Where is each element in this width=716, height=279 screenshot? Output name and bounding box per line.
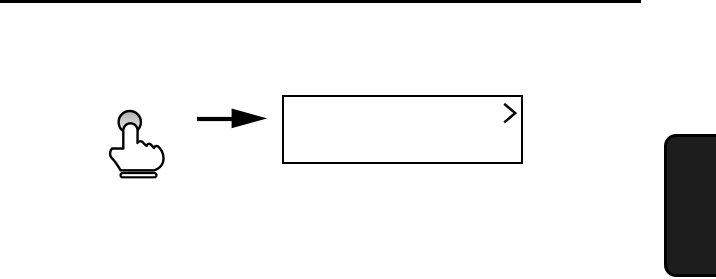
node menu box bbox=[282, 95, 523, 164]
node chevron bbox=[502, 102, 519, 125]
base bar bbox=[121, 173, 157, 177]
node side tab bbox=[664, 134, 716, 277]
wire top rule line bbox=[0, 0, 641, 3]
wire arrow bbox=[196, 108, 268, 130]
button circle bbox=[119, 111, 141, 133]
hand outline bbox=[110, 123, 163, 170]
node hand press icon bbox=[98, 95, 172, 187]
